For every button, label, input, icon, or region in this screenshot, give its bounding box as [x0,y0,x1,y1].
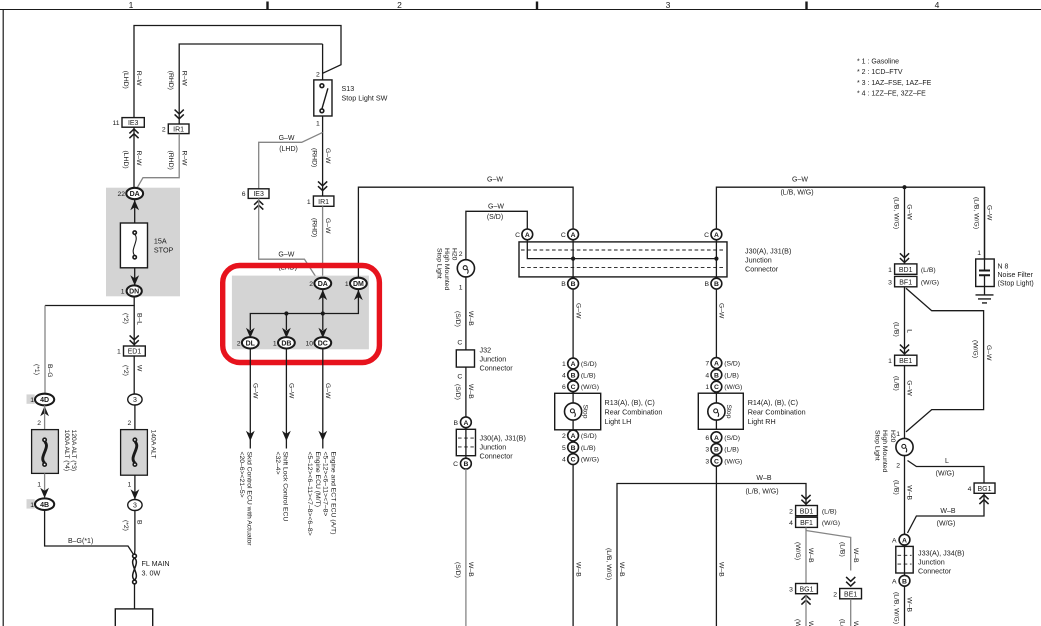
junction connector J32 [456,340,513,381]
connector IR1 pin2 [162,110,189,134]
svg-text:W–B: W–B [940,508,956,515]
svg-text:Junction: Junction [745,256,772,265]
svg-text:G–W: G–W [288,383,295,399]
label (L/B) G-W [893,376,913,396]
dest label Engine and ECT ECU [306,452,336,536]
connector BF1 pin3 [888,276,939,286]
svg-text:BG1: BG1 [977,486,991,493]
svg-text:B: B [571,445,576,452]
svg-text:(L/B, W/G): (L/B, W/G) [893,197,900,229]
svg-text:100A ALT (*4): 100A ALT (*4) [63,430,70,472]
svg-text:C: C [704,232,709,239]
svg-text:C: C [457,340,462,347]
label (LHD) R-W lower [122,151,142,169]
svg-text:DN: DN [129,289,139,296]
svg-text:B–G(*1): B–G(*1) [68,538,93,545]
svg-text:A: A [571,433,576,440]
R14 bottom pins 6A 3B 3C [705,432,742,466]
svg-text:2: 2 [896,463,900,470]
svg-text:(LHD): (LHD) [122,71,129,89]
label (*2) B-L [122,313,142,325]
svg-text:(L/B): (L/B) [581,445,596,452]
svg-text:11: 11 [112,120,119,127]
label (*2) B [122,520,142,531]
svg-text:J30(A), J31(B): J30(A), J31(B) [480,434,526,443]
svg-text:High Mounted: High Mounted [881,430,888,473]
junction dot bus-DB [284,311,288,315]
svg-text:(W/G): (W/G) [972,340,979,358]
svg-text:(L/B): (L/B) [581,373,596,380]
svg-text:(S/D): (S/D) [454,311,461,327]
svg-text:W–B: W–B [467,384,474,399]
label (L/B, W/G) W-B left drop [605,548,625,580]
wire fuse to node3 lower [134,475,136,499]
label (LHD) R-W upper [122,71,142,89]
svg-text:A: A [525,232,530,239]
svg-text:1: 1 [705,384,709,391]
svg-text:1: 1 [896,431,900,438]
svg-text:Noise Filter: Noise Filter [998,272,1034,279]
label (L/B) L [893,322,913,337]
svg-text:G–W: G–W [324,218,331,234]
label G-W (LHD) lower [278,252,297,272]
label L (W/G) [936,458,955,478]
svg-text:5: 5 [562,445,566,452]
svg-text:Rear Combination: Rear Combination [748,408,806,417]
svg-text:<20–6><21–5>: <20–6><21–5> [238,452,245,498]
wire DN split junction [45,297,134,306]
wire node3 to FL MAIN [134,511,136,555]
svg-text:1: 1 [888,358,892,365]
junction dot J30 left [571,257,575,261]
svg-text:W–B: W–B [467,562,474,577]
svg-text:1: 1 [128,482,132,489]
svg-text:N 8: N 8 [998,264,1009,271]
wire B(B) to R13 [572,289,574,358]
svg-text:3: 3 [133,503,137,510]
svg-text:IR1: IR1 [318,199,329,206]
svg-text:DL: DL [246,341,256,348]
svg-text:STOP: STOP [154,246,174,255]
wire IR1-2 down to DA22 (RHD gray) [137,134,179,189]
svg-text:* 2 : 1CD–FTV: * 2 : 1CD–FTV [857,69,903,76]
svg-text:(*2): (*2) [122,520,129,531]
svg-text:(RHD): (RHD) [311,148,318,167]
svg-text:4: 4 [705,372,709,379]
fuse 140A ALT [121,430,157,476]
wire ED1 to node3 [133,356,135,394]
svg-text:B: B [902,578,907,585]
svg-text:L: L [945,458,949,465]
svg-text:3: 3 [888,279,892,286]
svg-text:High Mounted: High Mounted [443,248,450,291]
svg-text:W–B: W–B [718,562,725,577]
svg-text:A: A [714,232,719,239]
wire H20 pin1 down through J32 [465,277,467,417]
svg-text:* 4 : 1ZZ–FE, 3ZZ–FE: * 4 : 1ZZ–FE, 3ZZ–FE [857,91,926,98]
svg-text:1: 1 [888,267,892,274]
label G-W (S/D) [487,204,505,222]
node DN pin1 [121,285,142,296]
svg-text:R–W: R–W [135,151,142,167]
svg-text:C: C [515,232,520,239]
wire BG1 pin3 down [805,594,807,626]
svg-text:C: C [714,384,719,391]
svg-text:1: 1 [121,289,125,296]
junction dot bus-DA/DC [321,311,325,315]
noise filter N8 wire [984,187,986,259]
svg-text:G–W: G–W [252,383,259,399]
svg-text:DA: DA [318,281,328,288]
svg-text:3: 3 [705,458,709,465]
svg-text:(W/G): (W/G) [822,520,840,527]
svg-text:W–B: W–B [574,562,581,577]
svg-text:(Stop Light): (Stop Light) [998,281,1034,288]
wire C(B) down W-B S/D [465,469,467,626]
svg-text:A: A [892,578,897,585]
node 4D pin1 [27,394,55,417]
svg-text:IE3: IE3 [128,120,139,127]
svg-text:(W/G): (W/G) [921,279,939,286]
connector IR1 pin1 [307,181,334,206]
svg-text:(L/B): (L/B) [724,447,739,454]
wire FL MAIN to battery [134,584,136,626]
connector BG1 pin4 [968,483,995,504]
label (RHD) R-W lower [167,151,187,170]
svg-text:2: 2 [397,0,402,10]
label G-W (LHD) branch [279,135,298,153]
svg-text:A: A [714,361,719,368]
wire B(B) to R14 [715,289,717,358]
svg-text:BD1: BD1 [899,267,913,274]
node B(B) left [561,278,578,289]
svg-text:W–B: W–B [852,548,859,563]
svg-text:6: 6 [705,435,709,442]
svg-text:L: L [906,329,913,333]
svg-text:<32–4>: <32–4> [274,452,281,475]
svg-text:DM: DM [353,281,364,288]
connector ED1 pin1 [117,335,145,356]
svg-text:B: B [453,420,458,427]
engine legend note [857,59,932,98]
svg-text:(W/G): (W/G) [794,619,801,626]
svg-text:G–W: G–W [985,345,992,361]
node C(A)2 [561,229,579,240]
label (L/B, W/G) W-B bottom right [893,592,913,624]
label (*1) B-G [33,364,53,378]
svg-text:(S/D): (S/D) [581,361,597,368]
svg-text:Stop: Stop [582,405,589,419]
label W-B (L/B, W/G) run [745,475,778,496]
svg-text:H20: H20 [889,430,896,443]
svg-text:R–W: R–W [180,151,187,167]
svg-text:G–W: G–W [906,204,913,220]
wire BG1 pin4 down to A(A) [908,493,985,533]
svg-text:W–B: W–B [618,562,625,577]
svg-text:IR1: IR1 [173,126,184,133]
svg-text:C: C [457,374,462,381]
svg-text:C: C [571,457,576,464]
svg-text:4: 4 [789,520,793,527]
svg-text:R14(A), (B), (C): R14(A), (B), (C) [748,398,798,407]
svg-text:1: 1 [273,341,277,348]
svg-text:Stop: Stop [725,405,732,419]
wire fuse to DN [134,268,136,286]
svg-text:W: W [135,365,142,372]
label (L/B) W-B [893,480,913,500]
svg-text:(RHD): (RHD) [167,151,174,170]
node DA pin2 [309,278,331,300]
svg-text:(W/G): (W/G) [724,458,742,465]
label (L/B, W/G) G-W drop [893,197,913,229]
svg-text:2: 2 [459,251,463,258]
svg-text:3: 3 [789,586,793,593]
gray panel DA/DM/DL/DB/DC [232,276,369,350]
label (L/B, W/G) G-W N8 [973,197,993,229]
wire W-B run to BD1/BF1 lower [617,484,806,626]
label (RHD) G-W below IR1-1 [311,218,331,237]
svg-text:C: C [571,384,576,391]
junction dot main run [902,185,906,189]
wire W/G loop to BG1 pin4 [908,461,985,484]
svg-text:(LHD): (LHD) [122,151,129,169]
wire 4D to fuse 120A [44,405,46,429]
svg-text:2: 2 [833,592,837,599]
red highlight oval [223,266,380,363]
svg-text:C: C [453,461,458,468]
svg-text:(W/G): (W/G) [794,542,801,560]
junction connector J33(A) J34(B) [896,545,965,579]
wire R14 down W-B [715,466,717,626]
svg-text:15A: 15A [154,237,167,246]
svg-text:ED1: ED1 [128,349,142,356]
svg-text:Stop Light SW: Stop Light SW [342,94,388,103]
svg-text:4: 4 [562,373,566,380]
label (RHD) G-W above IR1-1 [311,148,331,167]
svg-text:1: 1 [117,349,121,356]
svg-text:Engine and ECT ECU (A/T): Engine and ECT ECU (A/T) [329,452,336,535]
connector BG1 pin3 [789,584,817,605]
wire 4B to B-G(*1) run [45,510,135,556]
svg-text:Stop Light: Stop Light [435,248,442,279]
wire A(B) down W-B [904,586,906,626]
label G-W (L/B, W/G) main right [780,177,813,197]
gray panel around DA22 fuse DN [106,188,180,297]
svg-text:7: 7 [705,361,709,368]
svg-text:B–L: B–L [135,313,142,325]
label W-B (W/G) loop [937,508,956,528]
svg-text:3: 3 [666,0,671,10]
wire left branch B-G to 4D [44,306,46,394]
svg-text:Shift Lock Control ECU: Shift Lock Control ECU [281,452,288,522]
svg-text:Stop Light: Stop Light [873,430,880,461]
svg-text:1: 1 [316,121,320,128]
svg-text:A: A [902,537,907,544]
label (W/G) G-W bypass [972,340,992,361]
svg-text:2: 2 [309,281,313,288]
svg-text:(L/B): (L/B) [893,322,900,337]
node DC pin10 [305,337,331,348]
wire G-W LHD branch to IE3-6 [259,132,323,188]
svg-text:(L/B, W/G): (L/B, W/G) [780,190,813,197]
node A(B) of J33/J34 [892,575,910,586]
label (L/B) W-B bottom stub [839,619,859,626]
svg-text:B: B [714,372,719,379]
svg-text:B–G: B–G [46,364,53,378]
battery box [115,609,152,626]
svg-text:B: B [571,373,576,380]
svg-text:BE1: BE1 [899,358,912,365]
svg-text:G–W: G–W [487,177,503,184]
svg-text:BD1: BD1 [800,508,814,515]
svg-text:(S/D): (S/D) [454,562,461,578]
label (*2) W [122,365,142,376]
wire BE1 pin2 down [850,599,852,626]
svg-text:B: B [561,281,566,288]
svg-text:Rear Combination: Rear Combination [605,408,663,417]
svg-text:BF1: BF1 [800,520,813,527]
node B(B) right [705,278,722,289]
svg-text:A: A [714,435,719,442]
svg-text:(L/B, W/G): (L/B, W/G) [605,548,612,580]
svg-text:C: C [561,232,566,239]
svg-text:(RHD): (RHD) [311,218,318,237]
svg-text:2: 2 [562,433,566,440]
dest label Shift Lock Control ECU [274,452,289,522]
svg-text:(L/B): (L/B) [893,480,900,495]
svg-text:Connector: Connector [480,452,514,461]
svg-text:(L/B): (L/B) [839,542,846,557]
svg-text:<5–12><6–11><7–8>: <5–12><6–11><7–8> [322,452,329,517]
wire DM up to G-W main run [358,187,573,278]
svg-text:A: A [463,420,468,427]
svg-text:BF1: BF1 [899,279,912,286]
junction dot J30 right [714,257,718,261]
svg-text:G–W: G–W [279,135,295,142]
svg-text:W–B: W–B [467,311,474,326]
svg-text:G–W: G–W [792,177,808,184]
svg-text:G–W: G–W [488,204,504,211]
svg-text:Connector: Connector [918,567,952,576]
svg-text:B: B [463,461,468,468]
svg-text:(L/B, W/G): (L/B, W/G) [973,197,980,229]
svg-text:1: 1 [37,482,41,489]
node C(B) of J30/J31 [453,458,471,469]
label (W/G) W-B [794,542,814,563]
svg-text:(L/B, W/G): (L/B, W/G) [893,592,900,624]
svg-text:W–B: W–B [807,621,814,626]
wire diagonal to BE1 pin2 [806,531,851,571]
R13 bottom pins 2A 5B 4C [562,430,599,464]
wire W/G bypass loop upper [906,288,984,432]
svg-text:3. 0W: 3. 0W [142,569,161,578]
wire DA22 to fuse [134,199,136,223]
svg-text:IE3: IE3 [253,191,264,198]
svg-text:4: 4 [968,486,972,493]
svg-text:Junction: Junction [480,355,507,364]
svg-text:G–W: G–W [324,383,331,399]
svg-text:J33(A), J34(B): J33(A), J34(B) [918,549,964,558]
svg-text:2: 2 [316,72,320,79]
wire DL to Skid Control ECU [246,349,255,449]
wire DB to Shift Lock ECU [282,349,291,449]
svg-text:Connector: Connector [745,265,779,274]
svg-text:Connector: Connector [480,364,514,373]
svg-text:(S/D): (S/D) [724,435,740,442]
svg-text:Light LH: Light LH [605,417,632,426]
svg-text:(RHD): (RHD) [167,71,174,90]
label (RHD) R-W upper [167,71,187,90]
wire drop to BD1 upper [904,187,906,264]
wire right branch B-L to ED1 [133,306,135,347]
svg-text:G–W: G–W [718,303,725,319]
svg-text:140A ALT: 140A ALT [149,430,156,459]
switch S13 Stop Light SW [314,72,388,128]
svg-text:2: 2 [789,508,793,515]
lamp H20 High Mounted Stop Light S/D [435,248,474,292]
lamp H20 High Mounted Stop Light [873,430,913,473]
svg-text:W–B: W–B [906,485,913,500]
wire R13 down W-B [572,465,574,626]
junction connector J30(A) J31(B) horizontal [519,240,791,278]
wire BE1 to H20 [904,366,906,439]
svg-text:(W/G): (W/G) [724,384,742,391]
node DM pin1 [345,278,367,300]
lamp R14 Rear Combination Light RH [698,392,805,430]
svg-text:(*1): (*1) [33,364,40,375]
svg-text:B: B [705,281,710,288]
svg-text:(W/G): (W/G) [581,384,599,391]
node DL pin2 [237,337,259,348]
svg-text:G–W: G–W [986,205,993,221]
wire node3 to fuse 140A [134,405,136,430]
svg-text:2: 2 [162,126,166,133]
wire S13 pin2 stub [322,44,324,80]
wire IE3-11 down to DA22 [133,127,135,188]
svg-text:(S/D): (S/D) [724,361,740,368]
svg-text:Junction: Junction [480,443,507,452]
svg-text:120A ALT (*3): 120A ALT (*3) [70,430,77,472]
svg-text:BE1: BE1 [844,592,857,599]
label (S/D) W-B below J32 [454,384,474,400]
node A(A) of J33/J34 [892,534,910,545]
svg-text:2: 2 [37,420,41,427]
svg-text:4: 4 [935,0,940,10]
svg-text:(L/B, W/G): (L/B, W/G) [745,489,778,496]
label (W/G) W-B bottom stub [794,619,814,626]
svg-text:2: 2 [237,341,241,348]
R14 top pins 7A 4B 1C [705,358,742,392]
svg-text:W–B: W–B [852,621,859,626]
svg-text:(W/G): (W/G) [581,457,599,464]
node 3 upper [128,394,142,405]
dest label Skid Control ECU [238,452,253,547]
svg-text:B: B [135,520,142,525]
svg-text:R–W: R–W [180,71,187,87]
svg-text:1: 1 [345,281,349,288]
wire DC to Engine ECU [318,349,327,449]
svg-text:G–W: G–W [324,148,331,164]
svg-text:Light RH: Light RH [748,417,776,426]
svg-text:6: 6 [242,191,246,198]
fuse 120A/100A ALT [32,430,77,474]
svg-text:DC: DC [318,341,328,348]
svg-text:A: A [892,537,897,544]
svg-text:G–W: G–W [574,303,581,319]
svg-text:S13: S13 [342,84,355,93]
connector BF1 pin4 lower [789,517,840,527]
connector IE3 pin11 [112,118,144,139]
